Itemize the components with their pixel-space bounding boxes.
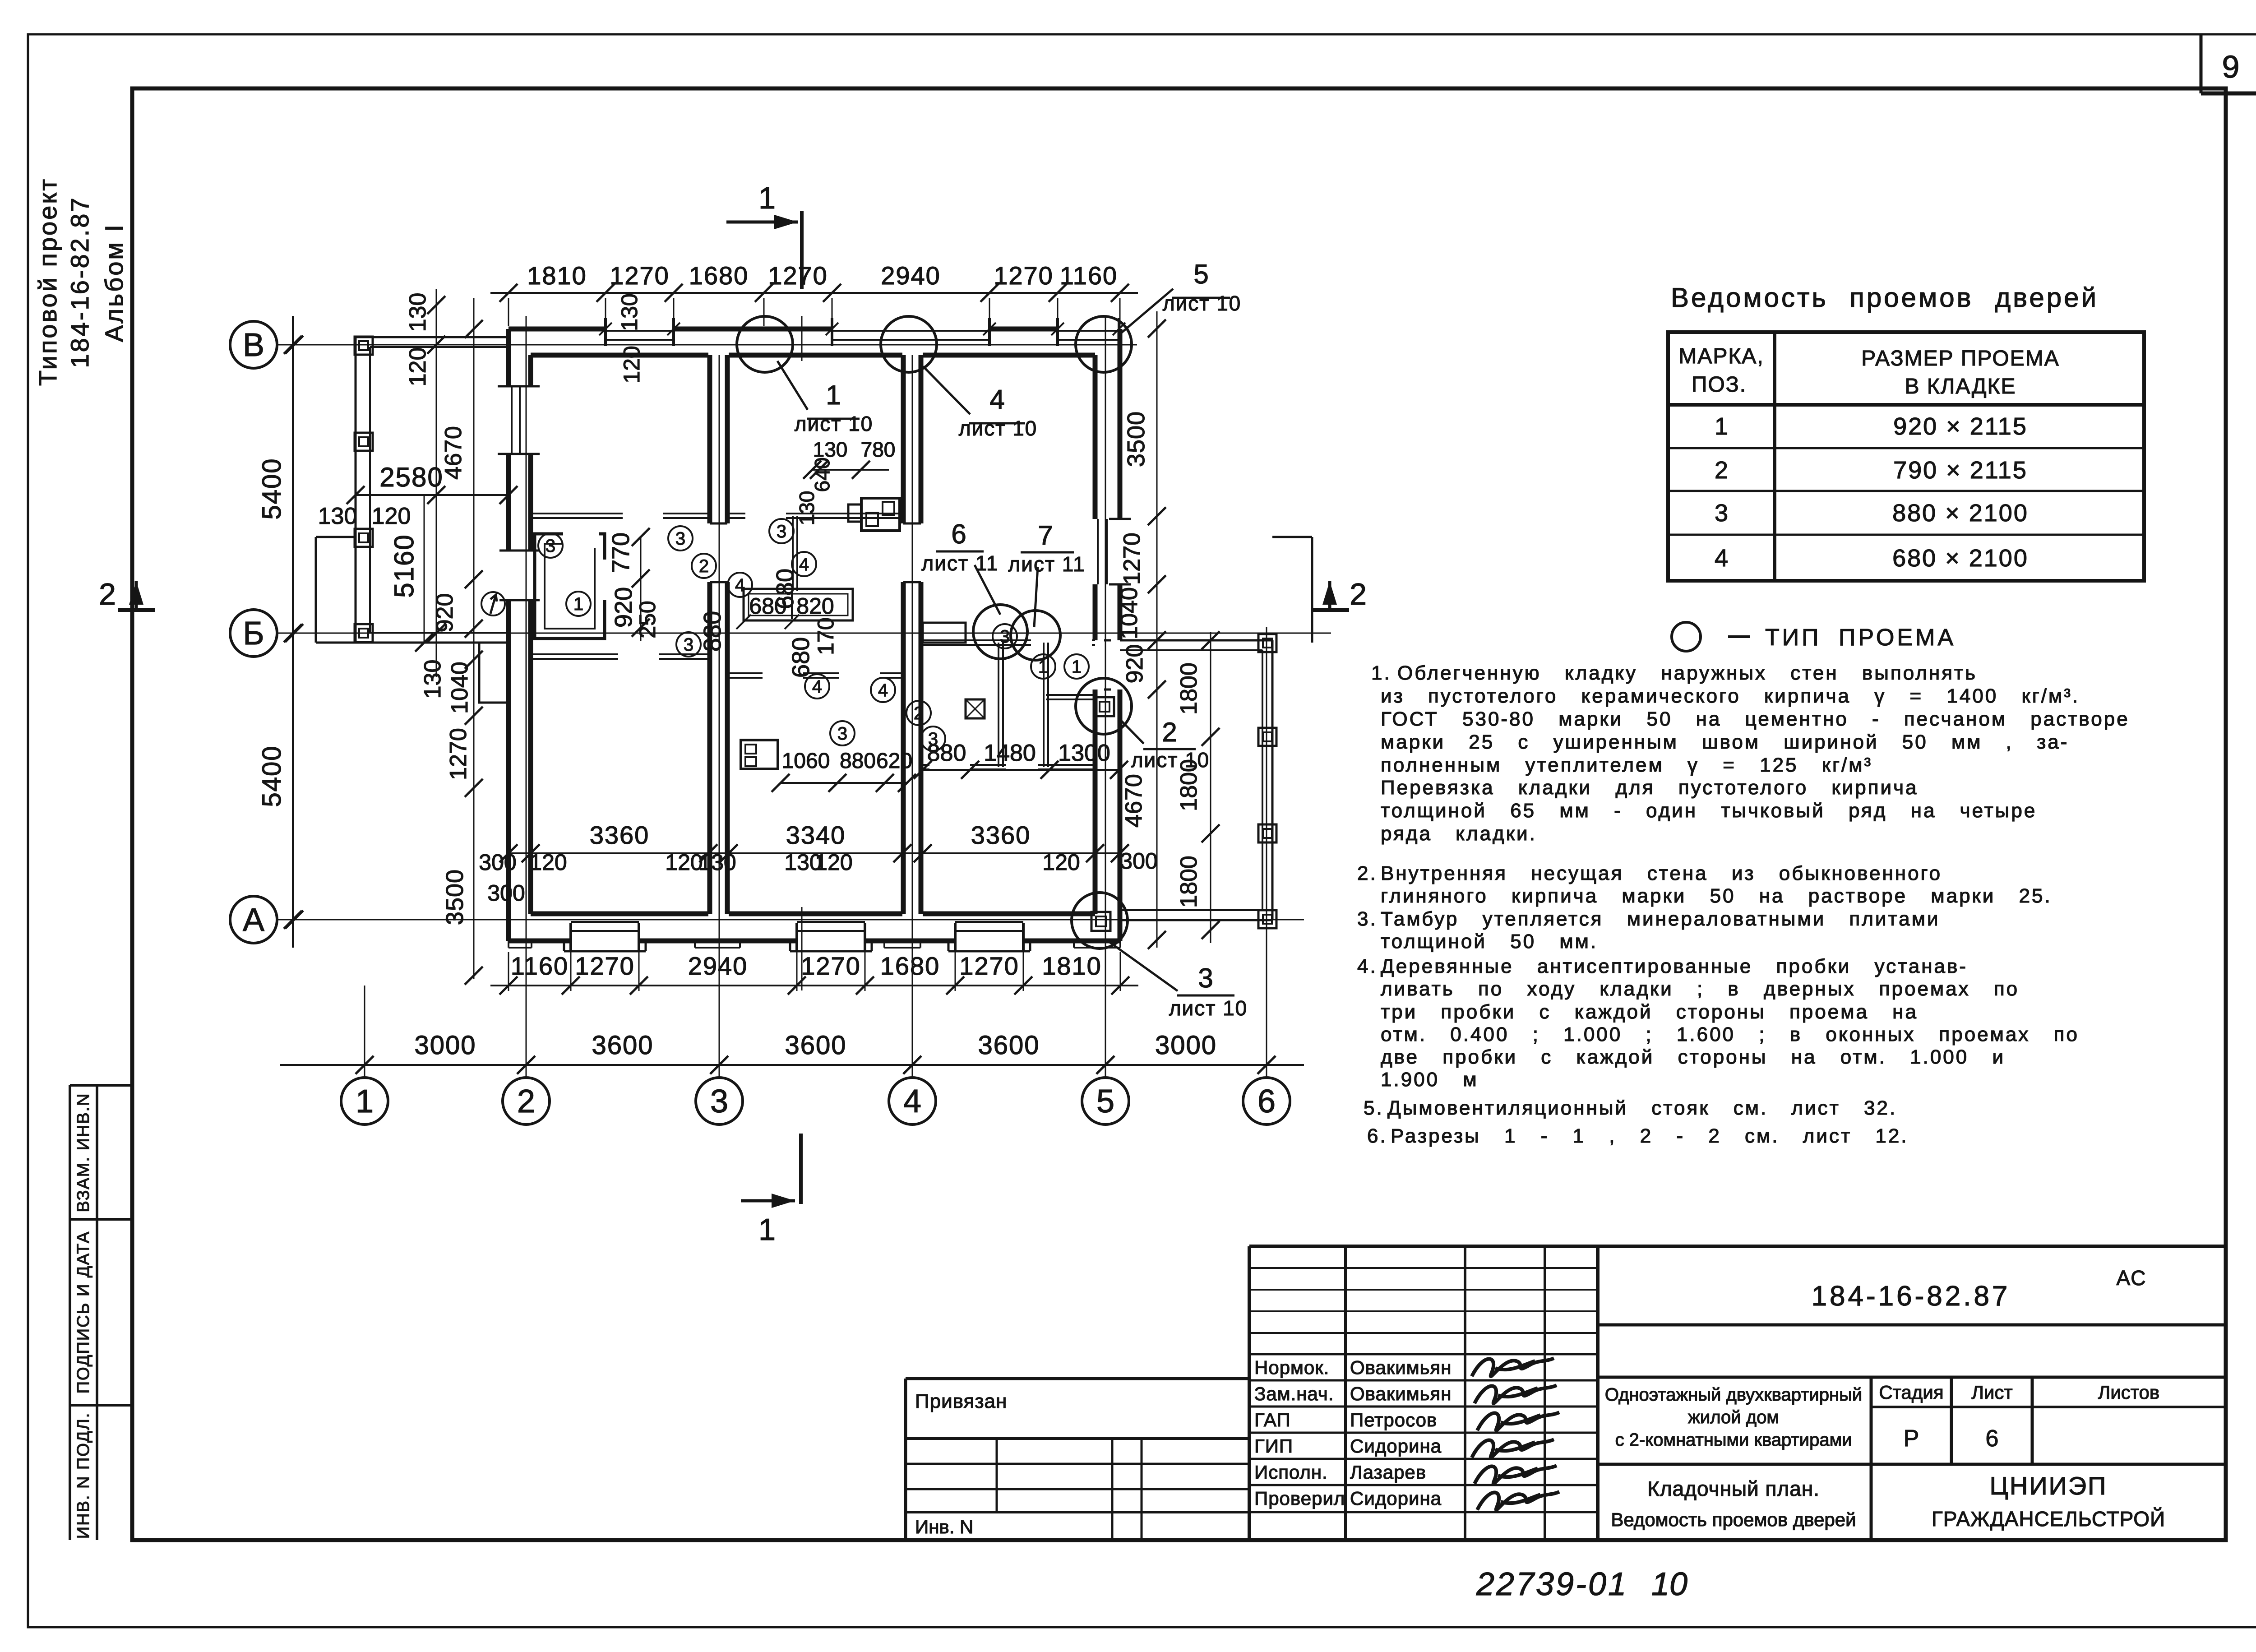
tambour walls [535, 534, 605, 639]
svg-text:Дымовентиляционный стояк: Дымовентиляционный стояк см. лист 32. [1387, 1097, 1897, 1119]
title block right section [1598, 1323, 2226, 1327]
svg-text:1: 1 [1715, 413, 1728, 440]
svg-text:5400: 5400 [257, 458, 287, 519]
svg-text:Кладочный план.: Кладочный план. [1647, 1477, 1820, 1500]
chain 880 1480 1300 [923, 769, 1119, 771]
svg-text:Петросов: Петросов [1350, 1409, 1437, 1430]
svg-text:4.: 4. [1357, 955, 1378, 977]
chain 130 780 [812, 469, 889, 471]
room dims line [509, 852, 1120, 854]
partition mid lower [729, 672, 763, 674]
svg-text:3600: 3600 [785, 1031, 846, 1060]
svg-text:лист 10: лист 10 [795, 412, 874, 435]
svg-text:120: 120 [1042, 850, 1080, 875]
right porch outline [1120, 639, 1272, 642]
svg-text:130: 130 [617, 293, 642, 331]
svg-text:4: 4 [735, 575, 745, 595]
svg-text:полненным утеплителем: полненным утеплителем γ = 125 кг/м³ [1381, 754, 1872, 776]
svg-text:6: 6 [1986, 1425, 1999, 1452]
svg-text:120: 120 [529, 850, 567, 875]
bottom wall window sills [571, 921, 639, 923]
svg-text:1: 1 [1072, 657, 1082, 677]
svg-text:Разрезы 1 - 1 , 2 - 2 см.: Разрезы 1 - 1 , 2 - 2 см. лист 12. [1391, 1125, 1909, 1147]
partition right apt bottom [923, 764, 929, 766]
svg-text:1270: 1270 [994, 261, 1054, 290]
svg-text:5160: 5160 [389, 534, 419, 597]
svg-text:6: 6 [1257, 1083, 1276, 1120]
svg-text:2940: 2940 [881, 261, 941, 290]
svg-text:680 × 2100: 680 × 2100 [1892, 545, 2029, 572]
svg-text:6.: 6. [1367, 1125, 1387, 1147]
svg-text:300: 300 [487, 880, 525, 906]
svg-text:1810: 1810 [1042, 952, 1102, 980]
svg-text:лист 10: лист 10 [959, 416, 1038, 440]
svg-text:1300: 1300 [1058, 740, 1110, 766]
svg-text:4: 4 [799, 555, 809, 574]
svg-text:3: 3 [684, 635, 693, 655]
svg-text:Привязан: Привязан [915, 1390, 1007, 1412]
svg-text:ВЗАМ. ИНВ.N: ВЗАМ. ИНВ.N [74, 1092, 93, 1212]
svg-text:4: 4 [989, 384, 1004, 415]
svg-text:120: 120 [372, 503, 411, 529]
svg-text:Деревянные антисептирован: Деревянные антисептированные пробки уста… [1381, 955, 1968, 977]
svg-text:1040: 1040 [1116, 587, 1142, 639]
svg-text:МАРКА,: МАРКА, [1678, 344, 1764, 368]
bottom wall outer face with windows [509, 939, 571, 944]
svg-text:130: 130 [420, 660, 446, 699]
svg-text:3: 3 [777, 522, 786, 541]
wc box top [923, 623, 966, 643]
svg-text:184-16-82.87: 184-16-82.87 [1812, 1281, 2011, 1312]
svg-text:3: 3 [1198, 963, 1213, 993]
title block central table [1249, 1245, 2226, 1248]
svg-text:4670: 4670 [440, 426, 467, 480]
axis circles 1-6 [341, 1078, 388, 1124]
top dimension chain [490, 292, 1138, 294]
type circle top 4 [881, 316, 937, 372]
svg-text:880 × 2100: 880 × 2100 [1892, 500, 2029, 527]
svg-text:ряда кладки.: ряда кладки. [1381, 823, 1537, 845]
svg-text:880: 880 [699, 611, 726, 652]
svg-text:лист 10: лист 10 [1169, 996, 1248, 1020]
svg-text:3: 3 [837, 724, 847, 744]
svg-text:680: 680 [787, 637, 814, 678]
svg-text:5400: 5400 [257, 745, 287, 807]
svg-text:1160: 1160 [1060, 261, 1118, 290]
svg-text:120: 120 [405, 347, 431, 387]
svg-text:Стадия: Стадия [1879, 1382, 1943, 1403]
svg-text:Сидорина: Сидорина [1350, 1435, 1442, 1457]
signatures [1472, 1358, 1554, 1376]
svg-text:1680: 1680 [880, 952, 940, 980]
svg-text:3500: 3500 [441, 869, 468, 925]
label 1 лист 10 [777, 361, 808, 410]
svg-text:1: 1 [573, 594, 583, 614]
svg-text:7: 7 [1038, 520, 1053, 551]
right wall window [1097, 519, 1099, 584]
svg-text:4: 4 [1715, 545, 1728, 572]
svg-text:130: 130 [795, 491, 818, 526]
svg-text:2: 2 [1162, 717, 1177, 747]
top wall window sills [606, 330, 674, 332]
svg-text:1: 1 [1038, 657, 1048, 677]
right chain 1800s [1210, 632, 1211, 943]
svg-text:3.: 3. [1357, 908, 1378, 930]
svg-text:Лист: Лист [1971, 1382, 2012, 1403]
svg-text:1270: 1270 [575, 952, 635, 980]
partition right apt verticals [998, 643, 999, 767]
svg-text:3: 3 [546, 536, 555, 556]
svg-text:2: 2 [517, 1083, 535, 1120]
vent block right wall mid [1095, 697, 1114, 716]
svg-text:9: 9 [2222, 49, 2240, 84]
partition left apt horizontal top [531, 513, 623, 514]
svg-text:Внутренняя несущая с: Внутренняя несущая стена из обыкновенног… [1381, 862, 1942, 884]
svg-text:Нормок.: Нормок. [1254, 1357, 1329, 1378]
svg-text:1800: 1800 [1176, 662, 1202, 715]
svg-text:770: 770 [607, 532, 634, 573]
svg-text:Типовой проект: Типовой проект [33, 177, 62, 386]
door number markers [538, 533, 563, 558]
svg-text:Листов: Листов [2098, 1382, 2159, 1403]
section mark 2 left [118, 608, 155, 612]
left wall chimney stub [479, 643, 509, 703]
grid axis lines horizontal [277, 344, 1137, 346]
svg-text:3340: 3340 [786, 821, 846, 849]
right porch step [1272, 536, 1312, 538]
svg-text:Овакимьян: Овакимьян [1350, 1357, 1452, 1378]
svg-text:три пробки с каждой с: три пробки с каждой стороны проема на [1381, 1001, 1918, 1023]
svg-text:лист 10: лист 10 [1163, 292, 1242, 315]
privyazan box [906, 1377, 1249, 1380]
svg-text:с 2-комнатными квартирами: с 2-комнатными квартирами [1615, 1430, 1852, 1450]
svg-text:300: 300 [479, 850, 516, 875]
svg-text:3: 3 [675, 529, 685, 549]
bottom wall sill projections under windows [563, 941, 565, 951]
svg-text:3: 3 [1000, 627, 1010, 647]
svg-text:5.: 5. [1364, 1097, 1384, 1119]
svg-text:880: 880 [927, 740, 966, 766]
svg-text:Инв. N: Инв. N [915, 1516, 973, 1537]
svg-text:АС: АС [2117, 1266, 2147, 1290]
svg-text:Б: Б [243, 615, 264, 652]
left wall window to porch [511, 386, 513, 454]
svg-text:1810: 1810 [527, 261, 587, 290]
type legend circle [1672, 622, 1701, 651]
label 6 лист 11 [975, 565, 1000, 615]
svg-text:620: 620 [876, 749, 912, 773]
left porch step [316, 536, 356, 538]
bearing wall axis 3 [707, 355, 712, 523]
svg-text:Овакимьян: Овакимьян [1350, 1383, 1452, 1404]
svg-text:920 × 2115: 920 × 2115 [1893, 413, 2028, 440]
svg-text:Сидорина: Сидорина [1350, 1488, 1442, 1509]
svg-text:1270: 1270 [801, 952, 861, 980]
svg-text:РАЗМЕР ПРОЕМА: РАЗМЕР ПРОЕМА [1861, 347, 2059, 370]
svg-text:6: 6 [951, 519, 966, 549]
label 4 лист 10 [923, 366, 970, 414]
stove lower [741, 740, 778, 769]
bottom dimension chain axes [280, 1064, 1304, 1066]
section mark 2 right [1311, 608, 1349, 612]
right wall [1118, 329, 1123, 519]
axis circle В [230, 321, 277, 368]
svg-text:1040: 1040 [447, 662, 473, 714]
svg-text:2.: 2. [1357, 862, 1378, 884]
vent block bottom right corner [1091, 912, 1110, 931]
page number box [2200, 34, 2203, 93]
svg-text:3: 3 [1715, 500, 1728, 527]
svg-text:4670: 4670 [1121, 773, 1147, 828]
svg-text:ПОДПИСЬ И ДАТА: ПОДПИСЬ И ДАТА [74, 1231, 93, 1394]
svg-text:250: 250 [635, 601, 660, 638]
svg-text:из пустотелого керамического: из пустотелого керамического кирпича γ =… [1381, 685, 2080, 707]
svg-text:Облегченную кладку нару: Облегченную кладку наружных стен выполня… [1397, 662, 1977, 684]
svg-text:ЦНИИЭП: ЦНИИЭП [1990, 1472, 2108, 1500]
svg-text:толщиной 65 мм - один тыч: толщиной 65 мм - один тычковый ряд на че… [1381, 800, 2037, 822]
left porch posts [355, 337, 373, 355]
type circle top 1 [737, 316, 793, 372]
dim 2580 horizontal [356, 494, 509, 496]
section mark 1 bottom [799, 1134, 803, 1204]
svg-text:1: 1 [758, 1212, 776, 1247]
svg-text:2940: 2940 [688, 952, 748, 980]
right wall porch door jambs [1104, 639, 1111, 642]
svg-text:130: 130 [318, 503, 357, 529]
type circle top 5 [1076, 316, 1132, 372]
svg-text:920: 920 [1122, 644, 1148, 684]
svg-text:А: А [243, 902, 264, 938]
svg-text:1060: 1060 [782, 749, 830, 773]
grid axis lines vertical [364, 986, 365, 1078]
svg-text:Тамбур утепляется минерал: Тамбур утепляется минераловатными плитам… [1381, 908, 1940, 930]
svg-text:2: 2 [914, 703, 924, 723]
svg-text:4: 4 [878, 680, 888, 700]
svg-text:3360: 3360 [590, 821, 650, 849]
svg-text:1270: 1270 [445, 728, 472, 780]
svg-text:Исполн.: Исполн. [1254, 1462, 1328, 1483]
svg-text:2: 2 [699, 556, 709, 576]
svg-text:Ведомость проемов дверей: Ведомость проемов дверей [1611, 1509, 1856, 1530]
svg-text:680: 680 [772, 569, 799, 609]
svg-text:1800: 1800 [1176, 856, 1202, 908]
type circle bottom corner [1072, 893, 1128, 949]
svg-text:ТИП ПРОЕМА: ТИП ПРОЕМА [1765, 625, 1956, 651]
left porch outline [356, 336, 509, 338]
bath partition horizontal [1046, 694, 1095, 696]
right chain 3500/1270/1040 [1156, 311, 1158, 948]
left chain porch 130 120 [436, 289, 437, 677]
svg-text:Ведомость проемов дверей: Ведомость проемов дверей [1671, 282, 2099, 313]
type circle right wall [1076, 678, 1132, 734]
svg-text:жилой дом: жилой дом [1688, 1407, 1779, 1427]
svg-text:22739-01: 22739-01 [1476, 1566, 1628, 1602]
type circle mid 7 [1011, 611, 1060, 660]
svg-text:790 × 2115: 790 × 2115 [1893, 457, 2028, 484]
svg-text:3000: 3000 [1155, 1031, 1217, 1060]
svg-text:920: 920 [610, 587, 637, 628]
north arrow circle [481, 592, 505, 615]
svg-text:3: 3 [710, 1083, 728, 1120]
tambour dims [640, 537, 642, 641]
vent square bath [966, 699, 985, 718]
svg-text:4: 4 [812, 677, 822, 697]
svg-text:120: 120 [619, 346, 644, 383]
label 2 лист 10 [1118, 717, 1144, 744]
right porch posts [1258, 634, 1276, 652]
svg-text:3360: 3360 [971, 821, 1031, 849]
svg-text:две пробки с каждой ст: две пробки с каждой стороны на отм. 1.00… [1381, 1046, 2005, 1068]
svg-text:2: 2 [99, 577, 116, 611]
svg-text:2: 2 [1715, 457, 1728, 484]
svg-text:3600: 3600 [592, 1031, 653, 1060]
svg-text:отм. 0.400 ; 1.000 ; 1.600: отм. 0.400 ; 1.000 ; 1.600 ; в оконных п… [1381, 1023, 2079, 1046]
closet box with dims [744, 589, 853, 620]
svg-text:1: 1 [356, 1083, 374, 1120]
svg-text:ГИП: ГИП [1254, 1435, 1293, 1457]
left outer vertical chain 5400 [292, 316, 294, 948]
svg-text:Альбом I: Альбом I [100, 223, 128, 342]
axis circle Б [230, 610, 277, 657]
svg-text:1.: 1. [1371, 662, 1392, 684]
bearing wall axis 4 [901, 355, 906, 523]
svg-text:1: 1 [758, 181, 776, 215]
svg-text:130: 130 [698, 850, 736, 875]
svg-text:1270: 1270 [610, 261, 670, 290]
svg-text:1680: 1680 [689, 261, 749, 290]
section mark 1 top [800, 211, 804, 289]
svg-text:Перевязка кладки для: Перевязка кладки для пустотелого кирпича [1381, 777, 1919, 799]
svg-text:1800: 1800 [1176, 759, 1202, 811]
svg-text:ИНВ. N ПОДЛ.: ИНВ. N ПОДЛ. [74, 1412, 93, 1539]
dim 5160 vertical [424, 495, 425, 643]
left wall [506, 329, 511, 386]
svg-text:ГАП: ГАП [1254, 1409, 1291, 1430]
svg-text:лист 11: лист 11 [1008, 552, 1085, 576]
svg-text:1: 1 [826, 380, 841, 410]
svg-text:2580: 2580 [379, 462, 443, 492]
left wall door jambs [499, 550, 540, 552]
svg-text:300: 300 [1120, 848, 1157, 874]
svg-text:В: В [243, 327, 264, 363]
svg-text:5: 5 [1193, 259, 1208, 289]
label 7 лист 11 [1034, 567, 1038, 627]
type circle mid 6 [973, 605, 1027, 659]
svg-text:1.900 м: 1.900 м [1381, 1069, 1479, 1091]
svg-text:1480: 1480 [984, 740, 1036, 766]
left stamp boxes [70, 1084, 132, 1087]
svg-text:3000: 3000 [414, 1031, 476, 1060]
svg-text:2: 2 [1350, 577, 1367, 611]
svg-text:В КЛАДКЕ: В КЛАДКЕ [1905, 375, 2016, 398]
svg-text:640: 640 [810, 458, 834, 492]
svg-text:ГОСТ 530-80 марки 50 на: ГОСТ 530-80 марки 50 на цементно - песча… [1381, 708, 2130, 730]
axis circle А [230, 896, 277, 943]
svg-text:130: 130 [405, 293, 431, 332]
partition right apt top [923, 639, 1031, 641]
svg-text:Лазарев: Лазарев [1350, 1462, 1426, 1483]
label 3 лист 10 [1108, 941, 1178, 991]
left chain 4670 [473, 298, 475, 979]
top wall outer face with window openings [509, 327, 606, 332]
svg-text:120: 120 [665, 850, 703, 875]
svg-text:10: 10 [1651, 1566, 1687, 1602]
svg-text:ливать по ходу кладки ;: ливать по ходу кладки ; в дверных проема… [1381, 978, 2019, 1000]
svg-text:1270: 1270 [768, 261, 828, 290]
partition mid vertical [792, 516, 794, 591]
svg-text:ГРАЖДАНСЕЛЬСТРОЙ: ГРАЖДАНСЕЛЬСТРОЙ [1932, 1507, 2165, 1531]
svg-text:ПОЗ.: ПОЗ. [1692, 373, 1747, 397]
label 5 лист 10 [1119, 289, 1173, 335]
svg-text:820: 820 [796, 593, 834, 619]
svg-text:Р: Р [1904, 1425, 1919, 1452]
svg-text:марки 25 с уширенным швом: марки 25 с уширенным швом шириной 50 мм … [1381, 731, 2069, 753]
svg-text:4: 4 [903, 1083, 921, 1120]
svg-text:880: 880 [840, 749, 876, 773]
bottom dimension chain inner [490, 985, 1138, 986]
svg-text:лист 11: лист 11 [921, 551, 999, 575]
partition left apt lower [531, 653, 618, 655]
svg-text:120: 120 [815, 850, 852, 875]
partition mid horizontal [729, 513, 745, 514]
svg-text:Проверил: Проверил [1254, 1488, 1345, 1509]
svg-text:184-16-82.87: 184-16-82.87 [65, 196, 94, 368]
svg-text:толщиной 50 мм.: толщиной 50 мм. [1381, 930, 1598, 953]
svg-text:780: 780 [861, 438, 896, 461]
svg-text:920: 920 [432, 593, 458, 633]
bottom wall inner face [531, 912, 708, 916]
door openings table [1668, 332, 2144, 581]
svg-text:глиняного кирпича марк: глиняного кирпича марки 50 на растворе м… [1381, 885, 2052, 907]
svg-text:170: 170 [813, 617, 838, 655]
svg-text:1160: 1160 [511, 952, 569, 980]
svg-text:1270: 1270 [959, 952, 1019, 980]
svg-text:3500: 3500 [1123, 411, 1150, 467]
svg-text:Одноэтажный двухквартирный: Одноэтажный двухквартирный [1605, 1385, 1862, 1405]
chain 680 820 ticks [736, 615, 751, 629]
svg-text:5: 5 [1096, 1083, 1114, 1120]
chain 1060 880 620 [781, 782, 907, 784]
svg-text:Зам.нач.: Зам.нач. [1254, 1383, 1334, 1404]
svg-text:1270: 1270 [1119, 532, 1145, 585]
svg-text:3600: 3600 [978, 1031, 1040, 1060]
top wall inner face [531, 353, 708, 358]
stove upper [848, 504, 861, 522]
